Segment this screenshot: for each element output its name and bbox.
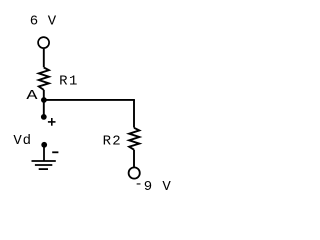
svg-text:2: 2 [112,134,120,150]
label -9 V [134,177,171,195]
label R2 [103,134,121,150]
terminal circle (6 V source) [38,37,49,48]
terminal dot (Vd +) [41,114,47,120]
svg-text:9: 9 [144,179,152,195]
svg-text:6: 6 [30,14,38,30]
terminal circle (-9 V source) [129,167,140,178]
svg-text:R: R [103,134,112,150]
label Vd [13,133,31,149]
svg-text:d: d [23,133,31,149]
resistor R2 [129,128,139,150]
terminal dot (Vd -) [41,142,47,148]
minus sign [52,151,58,153]
svg-text:V: V [48,14,57,30]
wire (node A to right corner) [44,99,135,101]
svg-text:R: R [59,74,68,90]
label 6 V [30,14,57,30]
wire (corner down to R2 top) [133,100,135,128]
resistor R1 [39,68,49,90]
svg-text:1: 1 [69,74,77,90]
svg-text:A: A [26,87,37,103]
ground [32,146,56,169]
node A junction dot [41,97,47,103]
wire (6 V terminal to R1 top) [43,49,45,68]
svg-text:-: - [134,177,142,193]
plus sign [48,118,56,126]
svg-text:V: V [13,133,22,149]
wire (R2 bottom to -9 V terminal) [133,150,135,167]
svg-text:V: V [162,179,171,195]
label R1 [59,74,77,90]
wire stub (node A down to + probe dot) [43,100,45,117]
wire (R1 bottom to node A) [43,90,45,100]
